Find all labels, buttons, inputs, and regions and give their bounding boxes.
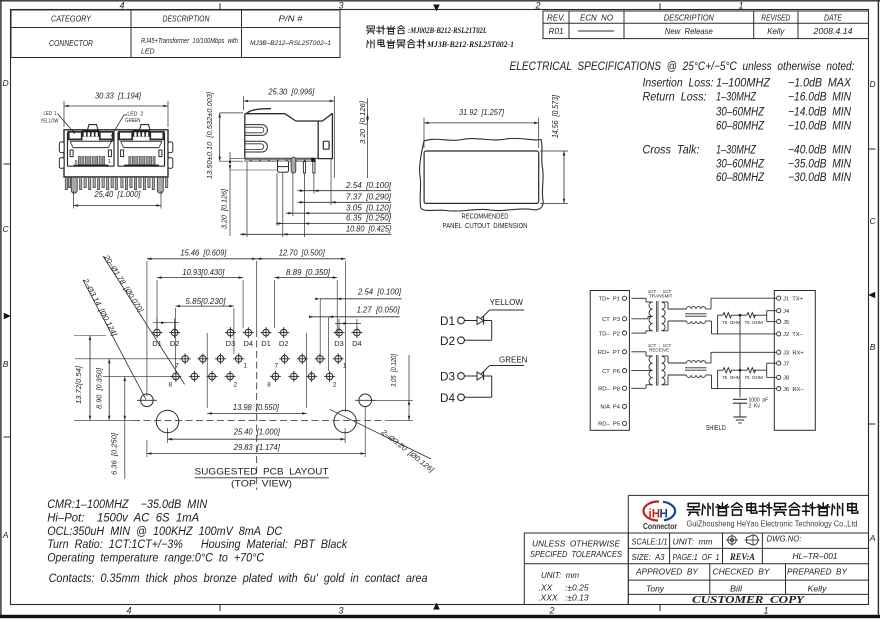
svg-text:30–60MHZ: 30–60MHZ: [716, 158, 765, 170]
svg-text:DATE: DATE: [824, 13, 843, 22]
svg-text:10.93[0.430]: 10.93[0.430]: [182, 268, 225, 277]
svg-text:D2: D2: [440, 334, 455, 348]
svg-text:UNIT: mm: UNIT: mm: [541, 570, 579, 580]
svg-text:CONNECTOR: CONNECTOR: [49, 39, 93, 48]
svg-text:1: 1: [343, 363, 347, 370]
svg-text:J3 RX+: J3 RX+: [783, 351, 804, 357]
svg-text:Connector: Connector: [643, 522, 678, 531]
svg-text:3.05 [0.120]: 3.05 [0.120]: [346, 203, 392, 212]
svg-text:PANEL CUTOUT DIMENSION: PANEL CUTOUT DIMENSION: [443, 221, 528, 230]
svg-text:2: 2: [548, 606, 554, 616]
svg-text:7.37 [0.290]: 7.37 [0.290]: [346, 193, 392, 202]
svg-text:CT P6: CT P6: [602, 369, 620, 375]
svg-text:25.40 [1.000]: 25.40 [1.000]: [93, 190, 141, 199]
svg-text:Hi–Pot: 1500v AC 6S 1mA: Hi–Pot: 1500v AC 6S 1mA: [47, 513, 199, 525]
svg-text:4: 4: [126, 606, 131, 616]
svg-text:(TOP VIEW): (TOP VIEW): [231, 479, 292, 489]
svg-text:Tony: Tony: [646, 584, 665, 594]
svg-text:CUSTOMER COPY: CUSTOMER COPY: [692, 595, 806, 606]
svg-text:30.33 [1.194]: 30.33 [1.194]: [95, 92, 142, 101]
svg-text:3: 3: [338, 1, 343, 11]
svg-text:10.80 [0.425]: 10.80 [0.425]: [346, 225, 392, 234]
svg-text:SUGGESTED PCB LAYOUT: SUGGESTED PCB LAYOUT: [195, 467, 330, 477]
svg-text:14.56 [0.573]: 14.56 [0.573]: [551, 94, 560, 138]
svg-text:RD– P8: RD– P8: [598, 387, 620, 393]
svg-text:Kelly: Kelly: [808, 584, 828, 594]
svg-text:.XX: .XX: [539, 583, 553, 593]
svg-text:RD+ P7: RD+ P7: [598, 350, 620, 356]
svg-text:ECN NO: ECN NO: [580, 13, 613, 22]
svg-text:31.92 [1.257]: 31.92 [1.257]: [459, 108, 505, 117]
svg-text:Bill: Bill: [730, 584, 743, 594]
svg-text:8: 8: [168, 382, 172, 389]
svg-text:Contacts: 0.35mm thick phos: Contacts: 0.35mm thick phos bronze plate…: [49, 573, 428, 585]
svg-text:Return Loss:: Return Loss:: [643, 92, 707, 104]
svg-text:GREEN: GREEN: [125, 118, 140, 124]
svg-text:YELLOW: YELLOW: [41, 119, 59, 125]
svg-text:8: 8: [75, 160, 78, 166]
svg-text:Kelly: Kelly: [767, 27, 785, 36]
svg-text:GuiZhousheng HeYao Electronic: GuiZhousheng HeYao Electronic Technology…: [687, 519, 858, 529]
svg-text:PREPARED BY: PREPARED BY: [787, 567, 848, 577]
svg-text:CHECKED BY: CHECKED BY: [713, 567, 771, 577]
svg-text:2: 2: [333, 382, 337, 389]
svg-text:6.35 [0.250]: 6.35 [0.250]: [346, 214, 392, 223]
svg-text:P/N #: P/N #: [279, 15, 304, 24]
svg-text:D: D: [870, 79, 876, 89]
svg-text:TD+ P1: TD+ P1: [599, 297, 620, 303]
svg-text:DESCRIPTION: DESCRIPTION: [163, 15, 210, 24]
svg-text:D1: D1: [440, 314, 455, 328]
svg-text:3.20 [0.126]: 3.20 [0.126]: [220, 188, 229, 229]
svg-text:LED: LED: [141, 49, 155, 56]
svg-text:D: D: [3, 78, 9, 88]
svg-text:SPECIFED TOLERANCES: SPECIFED TOLERANCES: [530, 549, 622, 559]
svg-text:Cross Talk:: Cross Talk:: [643, 144, 700, 156]
svg-text:−40.0dB MIN: −40.0dB MIN: [788, 144, 852, 156]
svg-text:D4: D4: [244, 339, 254, 348]
svg-text:8: 8: [267, 382, 271, 389]
svg-text:SCALE:1/1: SCALE:1/1: [632, 537, 668, 547]
svg-text:5.85[0.230]: 5.85[0.230]: [186, 297, 227, 306]
svg-text:29.83 [1.174]: 29.83 [1.174]: [233, 443, 281, 452]
svg-text:TRANSMIT: TRANSMIT: [649, 294, 673, 299]
svg-text:Insertion Loss:: Insertion Loss:: [643, 78, 714, 90]
svg-text:75 OHM: 75 OHM: [722, 320, 741, 325]
svg-text:J4: J4: [783, 309, 790, 315]
svg-text:1: 1: [738, 1, 743, 11]
svg-text::MJ002B-B212-RSL21T02L: :MJ002B-B212-RSL21T02L: [408, 26, 487, 35]
svg-text:H: H: [660, 509, 668, 521]
svg-text:A: A: [869, 533, 876, 543]
svg-text:MJ3B–B212–RSL25T002–1: MJ3B–B212–RSL25T002–1: [250, 40, 331, 47]
svg-text:DWG.NO:: DWG.NO:: [767, 534, 803, 544]
svg-text:LED 1: LED 1: [44, 111, 57, 117]
svg-text:8.90 [0.350]: 8.90 [0.350]: [95, 367, 104, 409]
svg-text:C: C: [3, 224, 10, 234]
svg-text:Operating temperature range:: Operating temperature range:0°C to +70°C: [47, 553, 265, 565]
svg-text:UNLESS OTHERWISE: UNLESS OTHERWISE: [532, 539, 620, 549]
svg-text:1–30MHZ: 1–30MHZ: [716, 144, 757, 156]
svg-text:R01: R01: [549, 27, 564, 36]
svg-text:A: A: [2, 530, 9, 540]
svg-text:UNIT: mm: UNIT: mm: [673, 537, 713, 547]
svg-text:8.89 [0.350]: 8.89 [0.350]: [286, 268, 331, 277]
svg-text:15.46 [0.609]: 15.46 [0.609]: [180, 248, 227, 257]
svg-text:2: 2: [233, 382, 237, 389]
svg-text:D2: D2: [170, 339, 180, 348]
svg-text:2008.4.14: 2008.4.14: [812, 27, 853, 36]
svg-text:J2 TX–: J2 TX–: [783, 332, 804, 338]
svg-text:PAGE:1 OF 1: PAGE:1 OF 1: [673, 552, 720, 562]
svg-text:J1 TX+: J1 TX+: [783, 296, 804, 302]
svg-text:1–30MHZ: 1–30MHZ: [716, 92, 757, 104]
svg-text:1.27 [0.050]: 1.27 [0.050]: [357, 306, 401, 315]
svg-text:13.50±0.10 [0.532±0.003]: 13.50±0.10 [0.532±0.003]: [205, 91, 214, 179]
svg-text:12.70 [0.500]: 12.70 [0.500]: [279, 248, 326, 257]
svg-text:2 Kv: 2 Kv: [749, 404, 761, 410]
svg-text:3.20 [0.126]: 3.20 [0.126]: [358, 100, 367, 144]
svg-text:LED 2: LED 2: [127, 112, 143, 118]
svg-text:3.05 [0.120]: 3.05 [0.120]: [389, 353, 398, 387]
svg-text:CATEGORY: CATEGORY: [51, 15, 92, 24]
svg-text:REV:A: REV:A: [729, 553, 755, 563]
svg-text:60–80MHZ: 60–80MHZ: [716, 172, 765, 184]
svg-text:−14.0dB MIN: −14.0dB MIN: [788, 106, 852, 118]
svg-text:60–80MHZ: 60–80MHZ: [716, 120, 765, 132]
svg-text::±0.25: :±0.25: [565, 583, 589, 593]
svg-text:J7: J7: [783, 361, 789, 367]
svg-text:25.40 [1.000]: 25.40 [1.000]: [233, 428, 281, 437]
svg-text:1–100MHZ: 1–100MHZ: [716, 78, 771, 90]
svg-text:MJ3B-B212-RSL25T002-1: MJ3B-B212-RSL25T002-1: [426, 40, 514, 49]
svg-text:APPROVED BY: APPROVED BY: [635, 567, 699, 577]
svg-text:13.72[0.54]: 13.72[0.54]: [74, 365, 83, 404]
svg-text:REVISED: REVISED: [761, 13, 790, 22]
svg-text:75 OHM: 75 OHM: [744, 375, 763, 380]
svg-text:−1.0dB MAX: −1.0dB MAX: [788, 78, 852, 90]
svg-text:−16.0dB MIN: −16.0dB MIN: [788, 92, 852, 104]
svg-text:D4: D4: [440, 391, 455, 405]
svg-text:D3: D3: [334, 339, 344, 348]
svg-text:DESCRIPTION: DESCRIPTION: [664, 13, 714, 22]
svg-text:1: 1: [108, 159, 111, 165]
svg-text:1: 1: [243, 363, 247, 370]
svg-text:7: 7: [175, 363, 179, 370]
svg-text:CMR:1–100MHZ −35.0dB MIN: CMR:1–100MHZ −35.0dB MIN: [47, 499, 208, 511]
svg-text:C: C: [870, 216, 877, 226]
svg-text:HL–TR–001: HL–TR–001: [793, 551, 838, 561]
svg-text:RECEIVE: RECEIVE: [649, 348, 669, 353]
svg-text:CT P3: CT P3: [602, 317, 620, 323]
svg-text:J8: J8: [783, 376, 789, 382]
svg-text:iH: iH: [649, 509, 661, 521]
svg-text:OCL:350uH MIN @ 100KHZ 100: OCL:350uH MIN @ 100KHZ 100mV 8mA DC: [47, 526, 283, 538]
svg-text:TD– P2: TD– P2: [599, 331, 620, 337]
svg-text:4: 4: [119, 1, 124, 11]
svg-text:D2: D2: [279, 339, 289, 348]
svg-text:SHIELD: SHIELD: [706, 423, 726, 432]
svg-text:B: B: [3, 359, 9, 369]
svg-text:J6 RX–: J6 RX–: [783, 387, 804, 393]
svg-text:2.54 [0.100]: 2.54 [0.100]: [357, 288, 402, 297]
svg-text:75 OHM: 75 OHM: [744, 320, 763, 325]
svg-text:7: 7: [275, 363, 279, 370]
svg-text:J5: J5: [783, 320, 789, 326]
svg-text:New Release: New Release: [665, 27, 714, 36]
svg-text:25.30 [0.996]: 25.30 [0.996]: [267, 88, 315, 97]
svg-text:13.98 [0.550]: 13.98 [0.550]: [233, 403, 280, 412]
svg-text:D1: D1: [261, 339, 271, 348]
svg-text:30–60MHZ: 30–60MHZ: [716, 106, 765, 118]
svg-text:−10.0dB MIN: −10.0dB MIN: [788, 120, 852, 132]
svg-text:ELECTRICAL SPECIFICATIONS @: ELECTRICAL SPECIFICATIONS @ 25°C+/−5°C u…: [510, 61, 855, 73]
svg-text:1: 1: [763, 606, 768, 616]
svg-text:D3: D3: [226, 339, 236, 348]
svg-text:2.54 [0.100]: 2.54 [0.100]: [345, 181, 392, 190]
svg-text:D4: D4: [352, 339, 362, 348]
svg-text:2: 2: [534, 1, 540, 11]
svg-text:GREEN: GREEN: [499, 356, 528, 365]
svg-text:3: 3: [338, 606, 343, 616]
svg-text:REV.: REV.: [547, 13, 565, 22]
svg-text::±0.13: :±0.13: [565, 593, 589, 603]
svg-text:6.36 [0.250]: 6.36 [0.250]: [110, 432, 119, 475]
svg-text:RECOMMENDED: RECOMMENDED: [462, 212, 509, 221]
svg-text:RD– P5: RD– P5: [598, 422, 620, 428]
svg-text:75 OHM: 75 OHM: [722, 375, 741, 380]
svg-text:B: B: [870, 342, 876, 352]
svg-text:.XXX: .XXX: [538, 593, 558, 603]
svg-text:YELLOW: YELLOW: [490, 298, 524, 307]
svg-text:Turn Ratio: 1CT:1CT+/−3%: Turn Ratio: 1CT:1CT+/−3% Housing Materia…: [47, 539, 348, 551]
svg-text:SIZE: A3: SIZE: A3: [632, 552, 665, 562]
svg-text:D3: D3: [440, 370, 455, 384]
svg-text:−30.0dB MIN: −30.0dB MIN: [788, 172, 852, 184]
svg-text:N/A P4: N/A P4: [600, 405, 620, 411]
svg-text:RJ45+Transformer 10/100Mbps: RJ45+Transformer 10/100Mbps with: [141, 38, 238, 45]
svg-text:−35.0dB MIN: −35.0dB MIN: [788, 158, 852, 170]
